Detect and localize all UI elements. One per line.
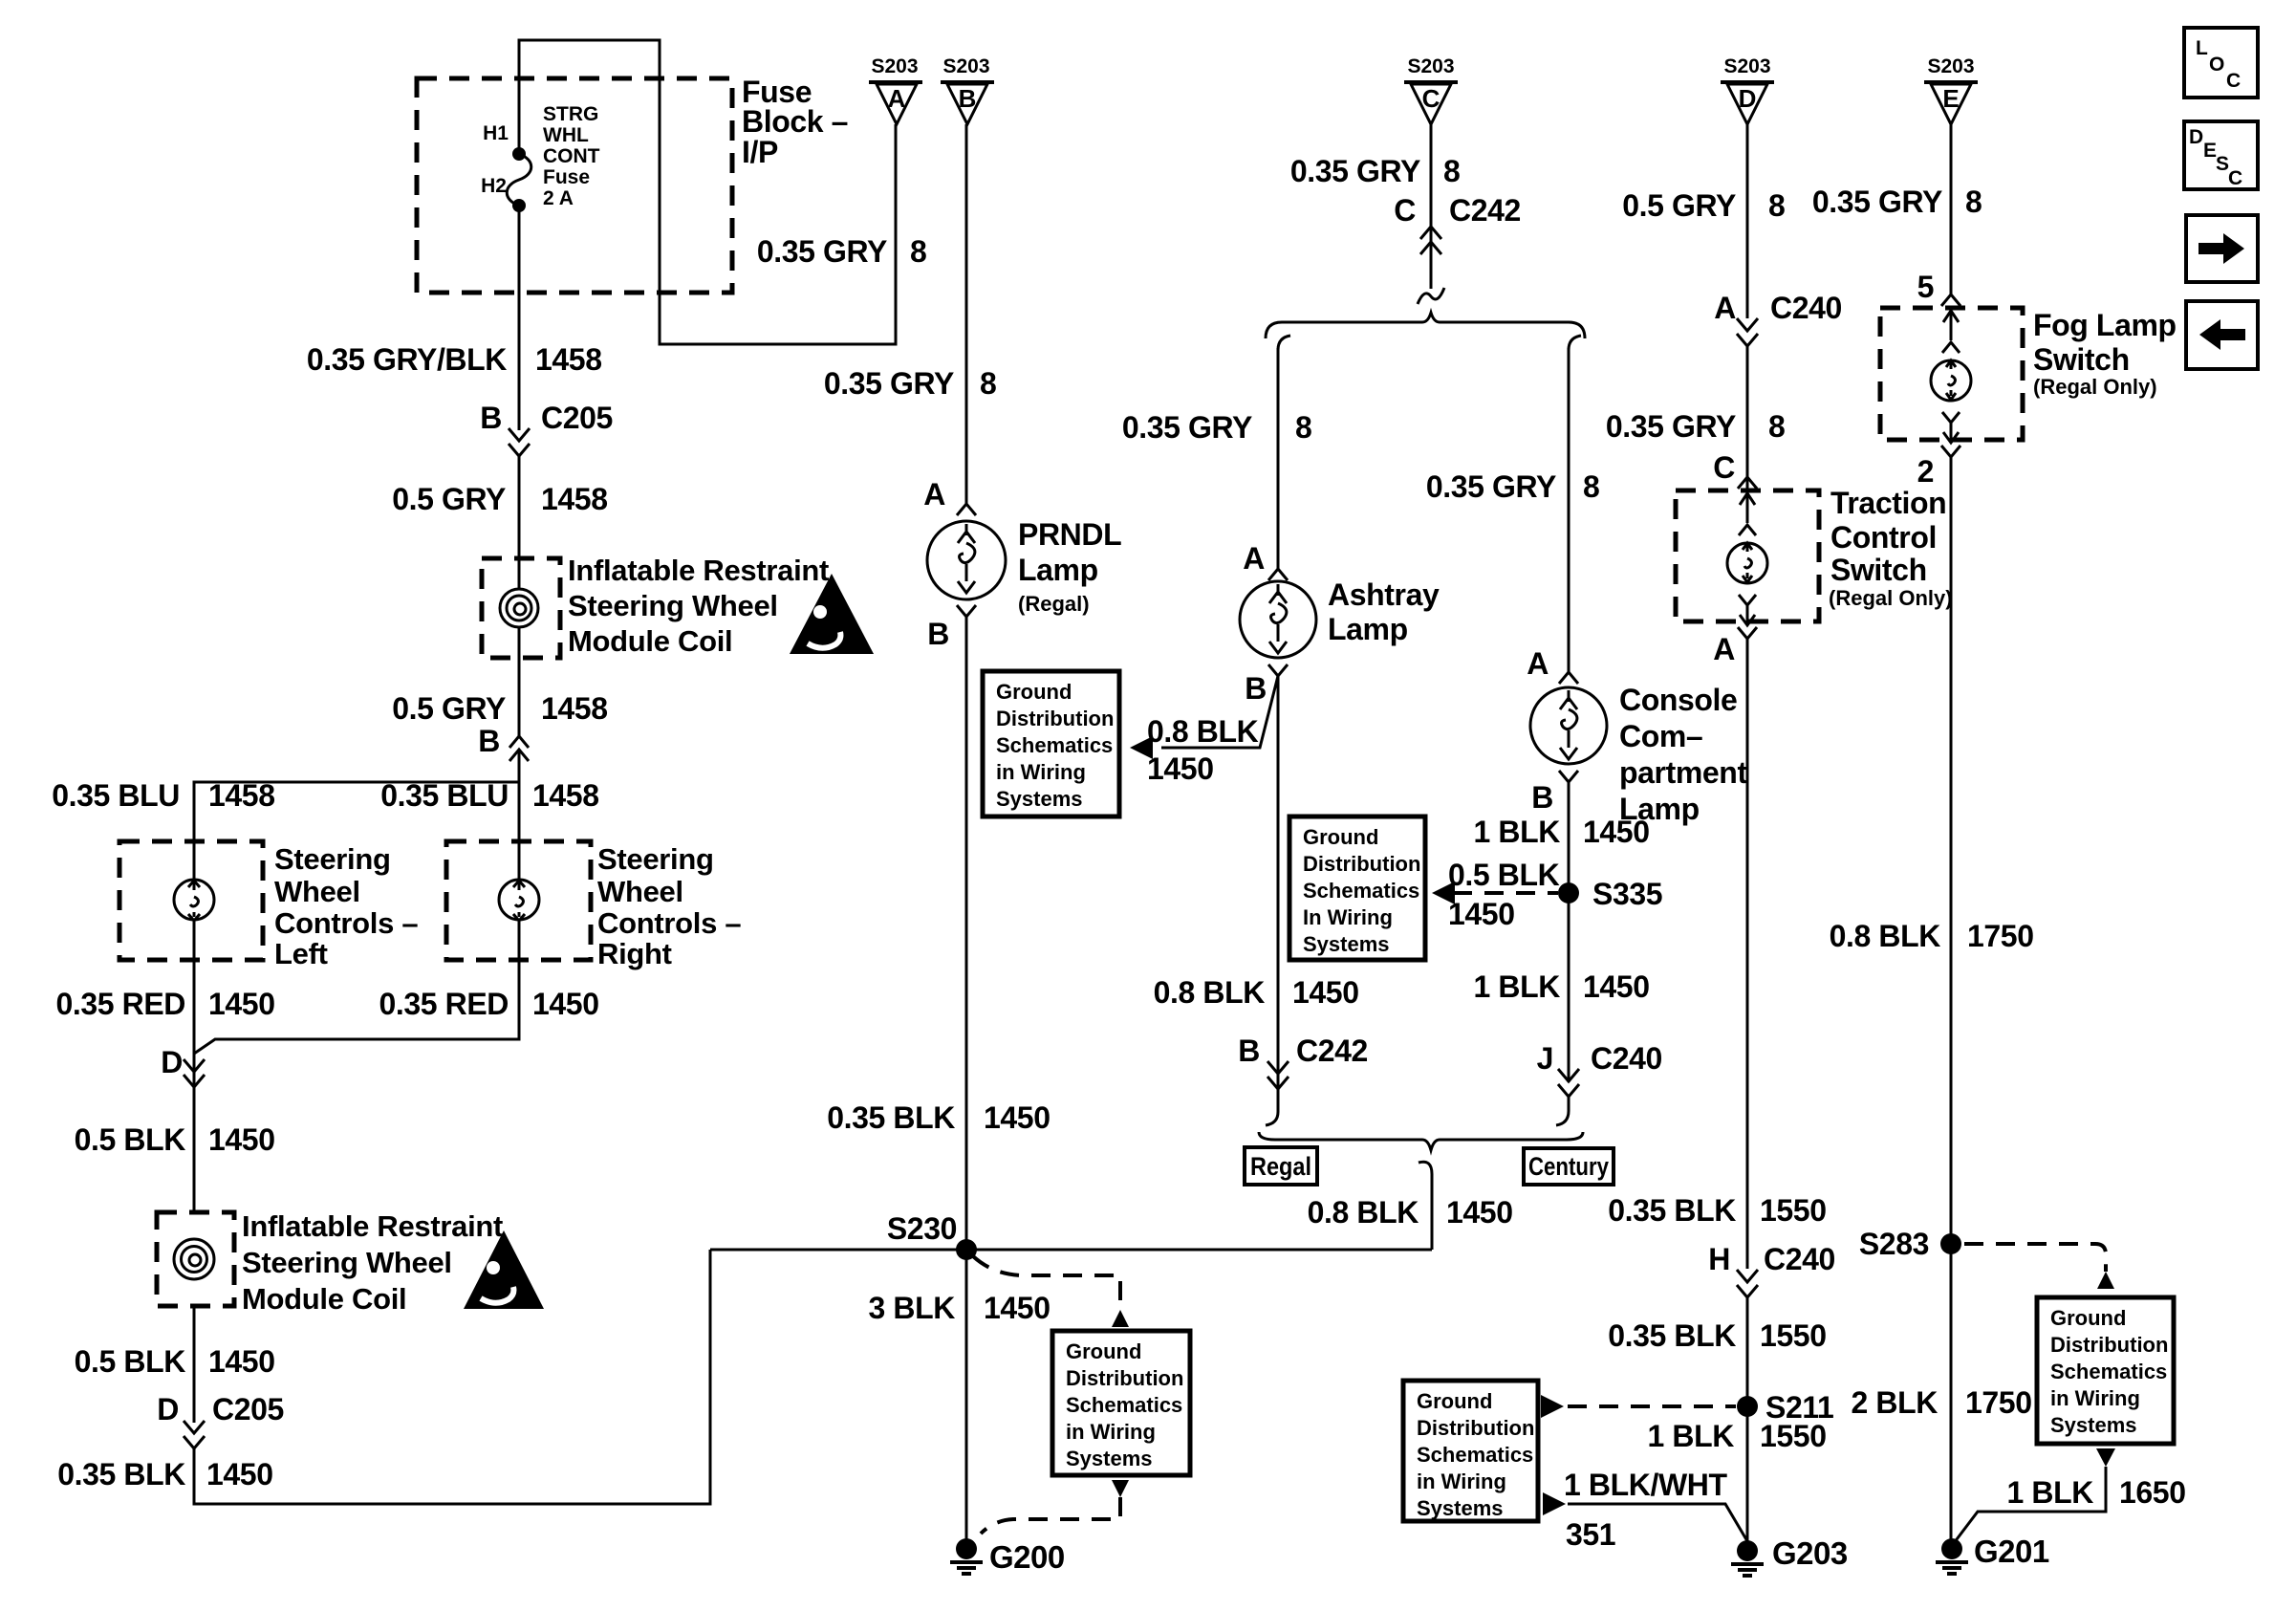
right-arrow legend box — [2186, 215, 2258, 282]
pin H1 — [483, 122, 509, 144]
svg-text:Ground: Ground — [2050, 1306, 2126, 1330]
dashed reference from S283 to ground distribution box — [1964, 1244, 2114, 1289]
svg-text:G201: G201 — [1974, 1534, 2049, 1569]
label: Regal (boxed) — [1245, 1147, 1317, 1185]
svg-text:S203: S203 — [1723, 55, 1770, 77]
svg-text:B: B — [478, 724, 500, 758]
svg-text:Systems: Systems — [1417, 1496, 1504, 1520]
svg-text:Systems: Systems — [2050, 1413, 2137, 1437]
terminal C of traction control switch — [1713, 450, 1757, 489]
wire: 0.35 BLK 1450 from PRNDL lamp to S230 — [965, 617, 968, 1250]
top brace splitting C leg to Regal and Century branches — [1266, 313, 1585, 350]
svg-text:Systems: Systems — [996, 787, 1083, 811]
fog lamp switch illumination lamp — [1931, 308, 1971, 443]
svg-text:A: A — [1714, 291, 1736, 325]
svg-text:Lamp: Lamp — [1018, 553, 1098, 587]
label: 0.8 BLK 1450 (brace to S230) — [1308, 1195, 1513, 1230]
ground distribution schematics box (S211 side) — [1403, 1381, 1538, 1521]
terminal A of ashtray lamp — [1243, 541, 1288, 580]
svg-text:Schematics: Schematics — [1066, 1393, 1182, 1417]
ground distribution schematics box (ashtray side) — [1289, 816, 1425, 960]
svg-text:1 BLK: 1 BLK — [1474, 815, 1561, 849]
svg-text:0.35 RED: 0.35 RED — [55, 987, 185, 1021]
svg-text:C: C — [1713, 450, 1735, 485]
svg-text:A: A — [1527, 646, 1549, 681]
terminal A of console lamp — [1527, 646, 1578, 684]
svg-text:B: B — [959, 84, 977, 113]
svg-text:1450: 1450 — [1292, 975, 1359, 1010]
label: 351 — [1566, 1517, 1615, 1552]
wire: 1 BLK/WHT 351 from ground distribution to G203 — [1543, 1492, 1747, 1541]
svg-text:in Wiring: in Wiring — [2050, 1386, 2140, 1410]
svg-text:3 BLK: 3 BLK — [869, 1291, 956, 1325]
connector C240 pin A (down arrows) — [1714, 291, 1842, 346]
terminal B of ashtray lamp — [1245, 664, 1288, 706]
svg-text:A: A — [1713, 632, 1735, 666]
svg-text:Systems: Systems — [1066, 1447, 1153, 1470]
svg-text:0.35 BLU: 0.35 BLU — [380, 778, 509, 813]
svg-text:1450: 1450 — [1448, 897, 1515, 931]
wire: S203 E leg 0.35 GRY 8 — [1950, 124, 1953, 296]
svg-text:8: 8 — [1768, 409, 1785, 444]
label: Inflatable Restraint Steering Wheel Module Coil (lower) — [242, 1209, 503, 1316]
svg-text:Module Coil: Module Coil — [568, 624, 732, 658]
label: 0.35 GRY 8 (ashtray) — [1122, 410, 1312, 445]
svg-text:Distribution: Distribution — [2050, 1333, 2168, 1357]
svg-text:0.35 GRY: 0.35 GRY — [824, 366, 954, 401]
label: 1 BLK/WHT — [1564, 1468, 1727, 1502]
inflatable restraint steering wheel module coil (upper) dashed box — [482, 558, 560, 658]
svg-text:1450: 1450 — [206, 1457, 273, 1491]
coil symbol (upper module coil) — [500, 589, 538, 627]
svg-text:Ground: Ground — [1303, 825, 1378, 849]
wire: 1 BLK 1650 from ground distribution box to G201 — [1954, 1448, 2115, 1543]
svg-text:0.35 BLK: 0.35 BLK — [1608, 1318, 1736, 1353]
svg-text:C: C — [2228, 167, 2242, 189]
wire break symbol above brace — [1418, 288, 1444, 304]
svg-text:Right: Right — [597, 937, 672, 970]
svg-text:Controls –: Controls – — [597, 906, 741, 940]
terminal B (up arrows into coil) — [478, 724, 529, 761]
connector D (down arrows) — [161, 1045, 205, 1087]
svg-text:Distribution: Distribution — [1417, 1416, 1534, 1440]
svg-text:S283: S283 — [1859, 1227, 1929, 1261]
svg-text:Wheel: Wheel — [597, 875, 683, 908]
label: 0.5 BLK 1450 (lower) — [75, 1344, 275, 1379]
svg-text:Console: Console — [1619, 683, 1737, 717]
label: 0.35 BLU 1458 (left) — [52, 778, 274, 813]
svg-text:1450: 1450 — [208, 987, 275, 1021]
svg-text:0.35 GRY: 0.35 GRY — [1290, 154, 1420, 188]
label: 0.35 RED 1450 (left) — [55, 987, 274, 1021]
svg-text:0.5 GRY: 0.5 GRY — [392, 691, 506, 726]
label: 2 BLK 1750 — [1852, 1385, 2032, 1420]
label: 1 BLK 1650 — [2007, 1475, 2186, 1510]
svg-text:1458: 1458 — [541, 482, 608, 516]
svg-text:C: C — [1394, 193, 1416, 228]
wire: 0.35 GRY 8 to console lamp (Century branch) — [1568, 348, 1570, 674]
svg-text:C242: C242 — [1296, 1034, 1368, 1068]
svg-text:Schematics: Schematics — [1417, 1443, 1533, 1467]
svg-text:Controls –: Controls – — [274, 906, 418, 940]
svg-text:1 BLK/WHT: 1 BLK/WHT — [1564, 1468, 1727, 1502]
coil symbol (lower module coil) — [174, 1239, 214, 1279]
svg-text:A: A — [923, 477, 945, 512]
wire: 0.8 BLK 1450 stub to ground distribution (ashtray) — [1130, 676, 1278, 759]
svg-text:1550: 1550 — [1760, 1193, 1827, 1228]
label: 0.8 BLK 1450 (ashtray down) — [1154, 975, 1359, 1010]
svg-text:Traction: Traction — [1830, 486, 1946, 520]
svg-text:351: 351 — [1566, 1517, 1615, 1552]
svg-text:1550: 1550 — [1760, 1318, 1827, 1353]
svg-text:0.5 BLK: 0.5 BLK — [1448, 858, 1560, 892]
svg-text:In Wiring: In Wiring — [1303, 905, 1393, 929]
svg-text:C240: C240 — [1770, 291, 1842, 325]
svg-text:0.8 BLK: 0.8 BLK — [1147, 714, 1259, 749]
label: 0.35 GRY 8 (B leg) — [824, 366, 997, 401]
svg-text:Systems: Systems — [1303, 932, 1390, 956]
label: Ashtray Lamp — [1328, 577, 1440, 646]
wire: S203 C leg 0.35 GRY 8 — [1430, 124, 1433, 289]
wire: 3 BLK 1450 from S230 to G200 — [965, 1250, 968, 1541]
svg-text:G200: G200 — [989, 1539, 1065, 1575]
traction control switch illumination lamp — [1727, 490, 1767, 625]
svg-text:1458: 1458 — [535, 342, 602, 377]
label: 1 BLK 1450 (upper) — [1474, 815, 1650, 849]
label: 1 BLK 1550 — [1648, 1419, 1827, 1453]
svg-text:E: E — [2203, 140, 2217, 162]
svg-text:C240: C240 — [1764, 1242, 1835, 1276]
PRNDL lamp — [927, 521, 1006, 599]
terminal B of PRNDL lamp — [927, 605, 976, 651]
svg-text:0.35 GRY/BLK: 0.35 GRY/BLK — [307, 342, 507, 377]
svg-text:Fog Lamp: Fog Lamp — [2033, 308, 2177, 342]
ground distribution schematics box (S283 side) — [2037, 1297, 2174, 1444]
label: Steering Wheel Controls - Left — [274, 842, 418, 970]
svg-text:S203: S203 — [1407, 55, 1454, 77]
svg-text:Century: Century — [1528, 1152, 1609, 1181]
svg-text:C205: C205 — [212, 1392, 284, 1426]
svg-text:1650: 1650 — [2119, 1475, 2186, 1510]
svg-text:J: J — [1537, 1041, 1553, 1076]
svg-text:Ground: Ground — [1066, 1339, 1141, 1363]
svg-text:H2: H2 — [481, 175, 507, 197]
traction control switch dashed box — [1676, 490, 1819, 621]
svg-text:1 BLK: 1 BLK — [1648, 1419, 1735, 1453]
svg-text:1458: 1458 — [208, 778, 275, 813]
wire: 0.5 GRY 1458 to module coil — [518, 456, 521, 589]
label: 0.35 GRY 8 (console) — [1426, 469, 1600, 504]
svg-text:Ground: Ground — [1417, 1389, 1492, 1413]
label: 0.35 RED 1450 (right) — [379, 987, 598, 1021]
dashed reference from ground distribution box to S211 — [1541, 1395, 1736, 1418]
svg-text:Steering Wheel: Steering Wheel — [242, 1246, 452, 1279]
steering wheel controls right dashed box — [446, 841, 591, 960]
svg-text:Left: Left — [274, 937, 328, 970]
svg-text:0.35 RED: 0.35 RED — [379, 987, 509, 1021]
label: Fuse Block - I/P — [742, 75, 848, 169]
label: 0.35 BLK 1550 (upper) — [1608, 1193, 1826, 1228]
svg-text:S: S — [2216, 153, 2229, 175]
svg-text:B: B — [1245, 671, 1267, 706]
svg-text:8: 8 — [1965, 185, 1982, 219]
LOC legend box — [2184, 28, 2258, 98]
svg-text:(Regal): (Regal) — [1018, 592, 1090, 616]
svg-text:1450: 1450 — [1583, 969, 1650, 1004]
wire: 0.35 BLK 1550 to S211 — [1746, 1297, 1749, 1543]
svg-text:Fuse: Fuse — [543, 166, 590, 188]
svg-text:O: O — [2209, 54, 2224, 76]
svg-text:Wheel: Wheel — [274, 875, 360, 908]
svg-text:Com–: Com– — [1619, 719, 1702, 753]
svg-text:1450: 1450 — [1147, 751, 1214, 786]
svg-text:Switch: Switch — [1830, 553, 1927, 587]
splice S211 — [1737, 1390, 1833, 1425]
terminal A of PRNDL lamp — [923, 477, 976, 515]
label: 0.35 GRY/BLK 1458 — [307, 342, 602, 377]
svg-text:D: D — [2189, 126, 2203, 148]
svg-text:S203: S203 — [942, 55, 989, 77]
fuse block I/P dashed box — [417, 78, 732, 293]
splice S283 — [1859, 1227, 1961, 1261]
label: Fog Lamp Switch (Regal Only) — [2033, 308, 2177, 399]
svg-text:8: 8 — [1295, 410, 1311, 445]
svg-text:H1: H1 — [483, 122, 509, 144]
svg-text:partment: partment — [1619, 755, 1747, 790]
svg-text:Regal: Regal — [1250, 1152, 1311, 1181]
svg-text:S335: S335 — [1592, 877, 1662, 911]
svg-text:8: 8 — [1443, 154, 1460, 188]
label: 0.5 GRY 1458 (upper) — [392, 482, 607, 516]
dashed reference from ground distribution box to G200 — [981, 1480, 1129, 1534]
svg-text:0.35 BLK: 0.35 BLK — [1608, 1193, 1736, 1228]
svg-text:B: B — [1238, 1034, 1260, 1068]
svg-text:0.35 GRY: 0.35 GRY — [1122, 410, 1252, 445]
svg-text:I/P: I/P — [742, 135, 778, 169]
label: 3 BLK 1450 — [869, 1291, 1051, 1325]
wire: rejoin of SWC branches — [194, 960, 519, 1212]
svg-text:Switch: Switch — [2033, 342, 2130, 377]
inflatable restraint steering wheel module coil (lower) dashed box — [157, 1212, 234, 1306]
label: Console Compartment Lamp — [1619, 683, 1747, 826]
splice S203 ref B — [941, 55, 994, 124]
label: 0.5 GRY 8 (D leg) — [1622, 188, 1785, 223]
label: 0.35 BLK 1550 (lower) — [1608, 1318, 1826, 1353]
svg-text:B: B — [927, 617, 949, 651]
svg-text:1450: 1450 — [1446, 1195, 1513, 1230]
SIR warning triangle (upper) — [790, 574, 874, 654]
svg-text:Steering: Steering — [274, 842, 391, 876]
wire: 0.35 GRY/BLK 1458 from fuse to C205 — [518, 206, 521, 430]
dashed reference from S230 to ground distribution box — [973, 1256, 1129, 1327]
svg-text:L: L — [2196, 37, 2208, 59]
svg-text:8: 8 — [1768, 188, 1785, 223]
connector C242 pin C (up arrows) — [1394, 193, 1521, 254]
ground G201 — [1936, 1534, 2049, 1574]
terminal 2 of fog lamp switch — [1917, 446, 1960, 489]
splice S203 ref A — [869, 55, 922, 124]
svg-text:0.35 GRY: 0.35 GRY — [1426, 469, 1556, 504]
wire: S203 B leg 0.35 GRY 8 down to PRNDL lamp — [965, 124, 968, 506]
svg-text:C: C — [1422, 84, 1440, 113]
svg-text:0.5 BLK: 0.5 BLK — [75, 1122, 186, 1157]
svg-text:Steering Wheel: Steering Wheel — [568, 589, 778, 622]
svg-text:S203: S203 — [1927, 55, 1974, 77]
splice S203 ref E — [1924, 55, 1978, 124]
label: 0.35 GRY 8 (E leg) — [1812, 185, 1982, 219]
svg-text:0.35 GRY: 0.35 GRY — [1606, 409, 1736, 444]
label: Inflatable Restraint Steering Wheel Module Coil (upper) — [568, 554, 829, 658]
label: Traction Control Switch (Regal Only) — [1829, 486, 1953, 610]
svg-text:A: A — [888, 84, 906, 113]
svg-text:1750: 1750 — [1965, 1385, 2032, 1420]
svg-text:Distribution: Distribution — [1066, 1366, 1183, 1390]
svg-text:0.35 GRY: 0.35 GRY — [757, 234, 887, 269]
ashtray lamp — [1240, 581, 1316, 658]
bottom brace joining Regal and Century branches — [1259, 1132, 1583, 1250]
label: 0.35 BLK 1450 (B leg) — [827, 1100, 1050, 1135]
lamp in SWC left — [174, 841, 214, 960]
svg-text:1 BLK: 1 BLK — [1474, 969, 1561, 1004]
svg-text:G203: G203 — [1772, 1535, 1848, 1571]
steering wheel controls left dashed box — [119, 841, 263, 960]
terminal 5 of fog lamp switch — [1917, 270, 1960, 306]
svg-text:0.8 BLK: 0.8 BLK — [1308, 1195, 1419, 1230]
label: 0.35 BLK 1450 (left leg) — [57, 1457, 272, 1491]
connector C205 pin B (in-line, down arrows) — [480, 401, 613, 456]
wire: Century branch tail into bottom brace — [1556, 1097, 1569, 1125]
svg-text:1450: 1450 — [208, 1122, 275, 1157]
wire: 0.35 BLK 1450 to S230 — [194, 1250, 710, 1504]
svg-text:CONT: CONT — [543, 145, 600, 167]
fuse F: STRG WHL CONT Fuse 2 A — [507, 147, 531, 212]
wire: 0.5 BLK 1450 below lower coil — [193, 1306, 196, 1423]
svg-text:8: 8 — [1583, 469, 1599, 504]
label: 0.35 GRY 8 (D leg lower) — [1606, 409, 1786, 444]
wire: 1 BLK 1450 console lamp to S335 — [1568, 782, 1570, 1082]
connector C240 pin H (down arrows) — [1708, 1242, 1835, 1297]
svg-text:1450: 1450 — [1583, 815, 1650, 849]
label: 0.5 GRY 1458 (lower) — [392, 691, 607, 726]
svg-text:0.5 GRY: 0.5 GRY — [392, 482, 506, 516]
svg-text:0.8 BLK: 0.8 BLK — [1154, 975, 1266, 1010]
svg-text:(Regal Only): (Regal Only) — [2033, 375, 2157, 399]
svg-text:1450: 1450 — [984, 1291, 1051, 1325]
svg-text:Schematics: Schematics — [1303, 879, 1419, 903]
svg-text:0.8 BLK: 0.8 BLK — [1830, 919, 1941, 953]
svg-text:1 BLK: 1 BLK — [2007, 1475, 2094, 1510]
label: 0.8 BLK 1450 (stub) — [1147, 714, 1259, 786]
svg-text:Ground: Ground — [996, 680, 1072, 704]
svg-text:C: C — [2226, 70, 2241, 92]
svg-text:D: D — [1739, 84, 1757, 113]
splice S203 ref D — [1721, 55, 1774, 124]
svg-text:1450: 1450 — [208, 1344, 275, 1379]
left-arrow legend box — [2186, 301, 2258, 369]
label: STRG WHL CONT Fuse 2 A — [543, 103, 600, 209]
svg-text:Schematics: Schematics — [996, 733, 1113, 757]
svg-text:(Regal Only): (Regal Only) — [1829, 586, 1953, 610]
splice S335 — [1558, 877, 1662, 911]
wire: 0.35 GRY 8 to ashtray lamp (Regal branch) — [1277, 348, 1280, 571]
label: 0.35 BLU 1458 (right) — [380, 778, 598, 813]
DESC legend box — [2184, 121, 2258, 189]
splice S230 — [710, 1211, 1432, 1260]
svg-text:Distribution: Distribution — [996, 707, 1114, 730]
svg-text:C240: C240 — [1591, 1041, 1662, 1076]
svg-text:1450: 1450 — [532, 987, 599, 1021]
terminal A of traction control switch — [1713, 627, 1757, 666]
ground G203 — [1731, 1535, 1848, 1576]
svg-text:8: 8 — [980, 366, 996, 401]
svg-text:C242: C242 — [1449, 193, 1521, 228]
svg-text:1450: 1450 — [984, 1100, 1051, 1135]
wire: fuse feed loop from fuse block to S203 A — [519, 40, 896, 344]
ground distribution schematics box (center, S230/G200) — [1052, 1331, 1190, 1475]
pin H2 — [481, 175, 507, 197]
svg-text:STRG: STRG — [543, 103, 598, 125]
svg-text:B: B — [1531, 780, 1553, 815]
svg-text:Lamp: Lamp — [1328, 612, 1408, 646]
label: 0.8 BLK 1750 — [1830, 919, 2034, 953]
label: Century (boxed) — [1524, 1148, 1614, 1185]
lamp in SWC right — [499, 841, 539, 960]
svg-text:WHL: WHL — [543, 124, 589, 146]
svg-text:0.35 BLK: 0.35 BLK — [827, 1100, 955, 1135]
dashed reference 0.5 BLK 1450 from S335 to ground distribution box — [1432, 858, 1560, 931]
svg-text:Distribution: Distribution — [1303, 852, 1420, 876]
svg-text:0.5 BLK: 0.5 BLK — [75, 1344, 186, 1379]
connector C205 pin D (down arrows) — [157, 1392, 284, 1448]
svg-text:0.35 GRY: 0.35 GRY — [1812, 185, 1942, 219]
svg-text:1750: 1750 — [1967, 919, 2034, 953]
wire: 0.8 BLK 1450 ashtray down to C242 — [1277, 676, 1280, 1089]
ground G200 — [950, 1538, 1065, 1575]
svg-text:A: A — [1243, 541, 1265, 576]
svg-text:PRNDL: PRNDL — [1018, 517, 1121, 552]
svg-text:Block –: Block – — [742, 104, 848, 139]
svg-text:Ashtray: Ashtray — [1328, 577, 1440, 612]
label: PRNDL Lamp (Regal) — [1018, 517, 1121, 616]
svg-text:Steering: Steering — [597, 842, 714, 876]
svg-text:1550: 1550 — [1760, 1419, 1827, 1453]
svg-text:1458: 1458 — [541, 691, 608, 726]
svg-text:E: E — [1942, 84, 1959, 113]
svg-text:in Wiring: in Wiring — [1066, 1420, 1156, 1444]
console compartment lamp — [1530, 687, 1607, 764]
svg-text:Inflatable Restraint: Inflatable Restraint — [242, 1209, 503, 1243]
svg-text:D: D — [157, 1392, 179, 1426]
svg-text:in Wiring: in Wiring — [1417, 1469, 1506, 1493]
splice S203 ref C — [1404, 55, 1458, 124]
wire: S203 D leg 0.5 GRY 8 — [1746, 124, 1749, 318]
svg-text:0.35 BLU: 0.35 BLU — [52, 778, 180, 813]
svg-text:S230: S230 — [887, 1211, 957, 1246]
label: 0.5 BLK 1450 (upper) — [75, 1122, 275, 1157]
wire: Regal branch tail into bottom brace — [1266, 1089, 1278, 1125]
ground distribution schematics box (PRNDL side) — [983, 671, 1119, 816]
svg-text:2 BLK: 2 BLK — [1852, 1385, 1939, 1420]
svg-text:2: 2 — [1917, 454, 1934, 489]
SIR warning triangle (lower) — [464, 1230, 544, 1309]
svg-text:Inflatable Restraint: Inflatable Restraint — [568, 554, 829, 587]
connector C240 pin J (down arrows) — [1537, 1041, 1662, 1097]
svg-text:2 A: 2 A — [543, 187, 574, 209]
connector C242 pin B (down arrows) — [1238, 1034, 1368, 1089]
fog lamp switch dashed box — [1880, 308, 2023, 440]
svg-text:C205: C205 — [541, 401, 613, 435]
wire: split to steering wheel controls — [194, 750, 519, 841]
